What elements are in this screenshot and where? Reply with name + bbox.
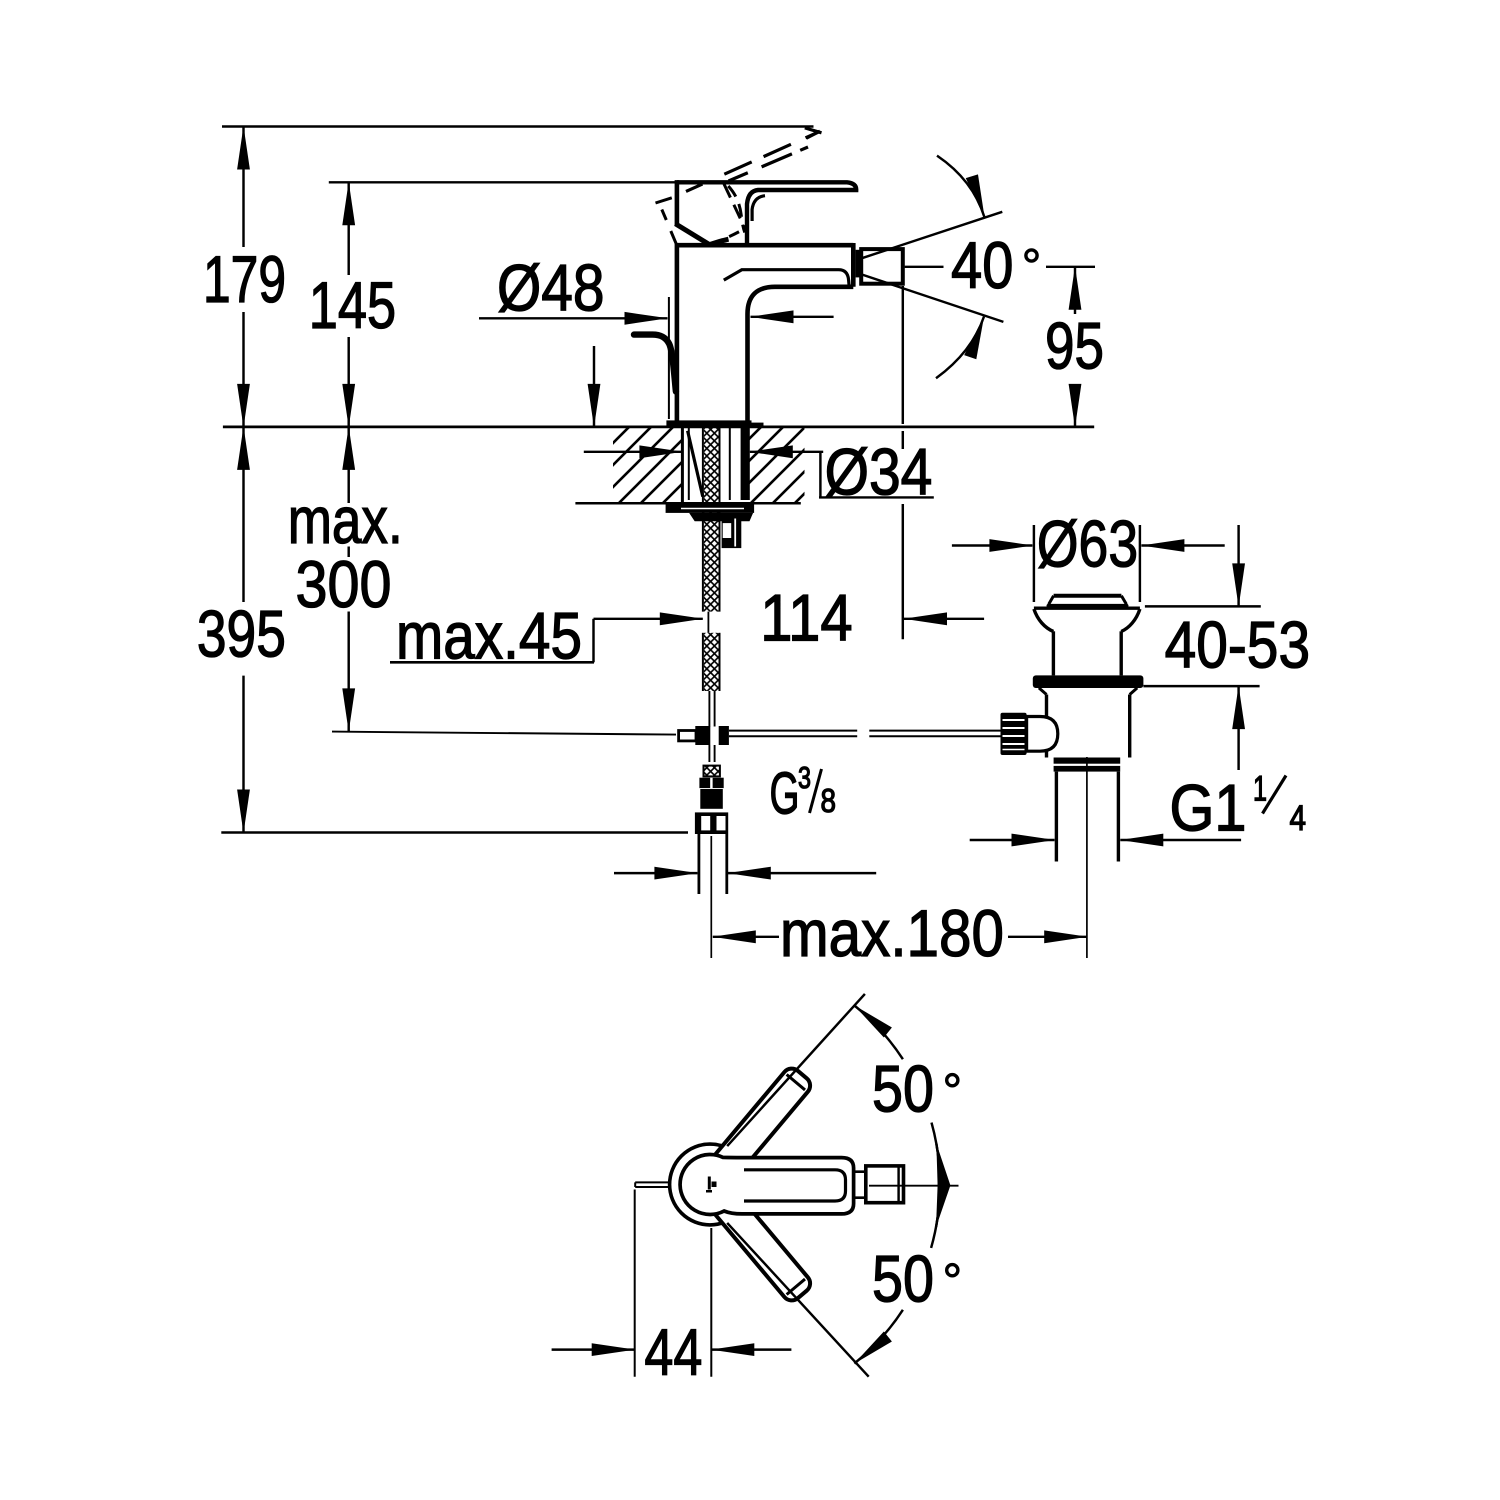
svg-text:50: 50 (872, 1242, 934, 1316)
svg-text:4: 4 (1290, 799, 1307, 838)
pull rod below hose (708, 691, 710, 727)
reference line at handle top (145 level) (329, 181, 677, 183)
drain centerline (1086, 757, 1088, 958)
svg-text:Ø63: Ø63 (1037, 507, 1138, 581)
50 deg upper dimension arc with arrow (854, 1006, 903, 1060)
mounting washer under counter (666, 504, 755, 513)
spout inner underside line (724, 270, 849, 286)
drain plug cap (1054, 594, 1122, 598)
raised handle rear dash (656, 198, 672, 203)
top view: handle lever upper (50 deg) (705, 1065, 814, 1187)
mounting plane line (223, 425, 1094, 428)
dimension 95 arrows (1074, 267, 1076, 314)
hose break inner line (707, 612, 709, 633)
dimension max.180 (713, 936, 779, 938)
svg-text:95: 95 (1045, 309, 1104, 383)
svg-text:1: 1 (1253, 770, 1267, 809)
aerator connector (black) (856, 250, 866, 278)
faucet base plate (666, 420, 751, 427)
dimension O63 (952, 544, 1033, 546)
top view: handle lever lower (50 deg) (705, 1182, 814, 1304)
braided hose upper segment (703, 427, 720, 612)
40 degree arc arrow upper (937, 156, 985, 218)
drain flange trumpet (1034, 607, 1140, 610)
aerator (861, 249, 903, 284)
O48 right arrow (751, 316, 834, 318)
dome hidden right dashed curve (728, 186, 745, 233)
horizontal rod to drain (left piece) (729, 730, 857, 732)
pop-up waste knob lever (634, 335, 676, 392)
dimension 395 vertical line with arrows (242, 427, 244, 833)
top view: aerator (866, 1166, 904, 1203)
drain adjustment knob (knurled) (1001, 713, 1027, 755)
dimension max.300 vertical line with arrows (347, 427, 349, 732)
O48 extension line (668, 297, 670, 419)
max.45 arrow to hose (594, 618, 703, 620)
center double-arrow arc at horizontal (931, 1123, 940, 1248)
braided hose lower segment (703, 633, 720, 691)
svg-text:max.180: max.180 (780, 896, 1004, 970)
50 deg lower dimension arc with arrow (854, 1310, 903, 1364)
40-53 reference lines (1145, 605, 1261, 607)
top view: centerline through aerator (869, 1185, 959, 1187)
svg-text:max.: max. (288, 483, 403, 557)
handle inner corner second line (752, 196, 765, 221)
dimension G1 1/4 arrows (970, 839, 1055, 841)
shank inner wall line (729, 427, 731, 500)
svg-text:Ø48: Ø48 (497, 251, 605, 325)
O63 extension lines (1033, 525, 1035, 602)
dimension 145 vertical line with arrows (347, 182, 349, 427)
drain thread collar bars (1054, 758, 1121, 764)
svg-text:3: 3 (798, 760, 811, 795)
knob neck (1027, 717, 1058, 752)
raised handle rear lower dashes (662, 210, 676, 244)
svg-text:G: G (770, 761, 800, 827)
dimension G3/8 arrows (614, 872, 697, 874)
spray cone upper line (857, 212, 1002, 260)
top view: center mark (706, 1177, 717, 1193)
spray cone lower line (857, 273, 1003, 322)
rod coupling (679, 726, 729, 745)
bottom reference line (395 level) (221, 831, 688, 833)
handle lower-left diagonal edge (675, 224, 709, 245)
top reference line (179 level) (222, 125, 814, 127)
raised handle tip strokes (805, 128, 822, 138)
handle left edge (675, 180, 680, 225)
check valve body (700, 789, 723, 809)
svg-text:40: 40 (951, 228, 1013, 302)
connection nut (695, 812, 728, 834)
svg-text:395: 395 (197, 597, 286, 671)
svg-text:179: 179 (203, 242, 286, 316)
dimension 40-53 arrows (1237, 525, 1239, 606)
horizontal rod to drain (right piece) (869, 730, 1000, 732)
pop-up pull rod horizontal reference line (332, 732, 676, 735)
top view: pop-up rod (left) (635, 1182, 669, 1187)
counter underside line (575, 502, 800, 505)
shank wedge line (688, 431, 703, 497)
top view: faucet body keyhole outline (circle merging into spout) (680, 1154, 854, 1214)
svg-text:8: 8 (821, 782, 837, 819)
hose end braid piece (704, 766, 720, 777)
shank left wall (681, 427, 684, 502)
svg-text:40-53: 40-53 (1165, 608, 1311, 682)
dimension 44 arrows (552, 1348, 635, 1350)
handle lever (horizontal position) (677, 182, 856, 243)
114 right arrow (904, 618, 984, 620)
raised handle dashed top edge (686, 131, 820, 191)
50 deg upper leg line (727, 994, 865, 1146)
drain body (1039, 688, 1137, 695)
drain rubber seal (black) (1033, 675, 1144, 688)
top view: spout inner contour (744, 1170, 846, 1201)
cartridge dome base curve (710, 239, 729, 244)
svg-text:Ø34: Ø34 (825, 435, 933, 509)
50 deg lower leg line (727, 1223, 869, 1377)
washer flange (689, 513, 753, 521)
aerator extension line down to plane (902, 286, 904, 424)
counter hatch left block (613, 428, 681, 503)
svg-text:44: 44 (644, 1315, 702, 1389)
G3/8 connection pipe (698, 834, 701, 894)
top view: escutcheon outer circle (670, 1144, 751, 1225)
svg-text:G1: G1 (1170, 771, 1247, 845)
top view: aerator connector lines (854, 1172, 866, 1198)
shank right seal bar (741, 427, 750, 500)
40 degree arc arrow lower (936, 317, 984, 379)
svg-text:300: 300 (296, 547, 392, 621)
svg-text:50: 50 (872, 1052, 934, 1126)
rod guide block (722, 517, 742, 548)
raised handle dashed bottom edge (729, 147, 809, 181)
O34 right arrow with elbow leader (750, 451, 823, 453)
svg-text:114: 114 (760, 581, 852, 655)
raised handle dashed front edge (724, 184, 747, 232)
drain tailpipe (1055, 772, 1058, 862)
leader lines at 40 label (905, 266, 944, 268)
counter hatch right block (750, 428, 805, 503)
dimension O34 left arrow (584, 451, 683, 453)
dimension 179 vertical line with arrows (242, 127, 244, 427)
pull rod below coupling (708, 745, 710, 762)
svg-text:145: 145 (309, 268, 396, 342)
faucet body outline (675, 243, 854, 421)
hose centerline (710, 836, 712, 958)
check valve nut blocks (699, 778, 723, 788)
down arrow onto mounting plane (hose reference) (593, 346, 595, 427)
dome hidden bottom dashed curve (713, 229, 745, 244)
dimension 44 extension lines (634, 1190, 636, 1377)
